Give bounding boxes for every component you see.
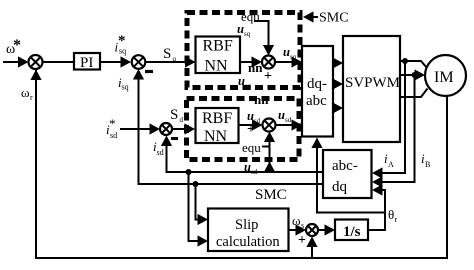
node iA label <box>384 151 394 169</box>
svg-text:r: r <box>395 215 398 224</box>
svg-text:+: + <box>298 233 306 248</box>
wire SVPWM phase A to IM <box>400 61 427 68</box>
wire theta-r net <box>368 184 385 230</box>
svg-text:equ: equ <box>242 140 261 155</box>
block 1/s integrator <box>335 220 368 241</box>
svg-text:IM: IM <box>434 69 454 86</box>
wire IM speed feedback down <box>30 69 447 258</box>
svg-text:+: + <box>264 69 272 84</box>
node SMC arrow top <box>303 11 318 22</box>
node omega-s label <box>292 213 304 230</box>
node usd equ label <box>242 140 261 155</box>
node usq equ label <box>237 9 260 38</box>
svg-text:abc-: abc- <box>332 158 358 174</box>
svg-text:d: d <box>180 116 184 124</box>
svg-text:q: q <box>173 55 177 63</box>
block RBF NN d (U2) <box>196 108 239 145</box>
summing junction J2 <box>132 55 146 69</box>
summing junction J5 <box>263 119 276 132</box>
junction dot phase A <box>402 58 408 64</box>
node isd label <box>153 139 164 157</box>
svg-text:sq: sq <box>244 30 251 38</box>
wire J4 to dq-abc (usq) <box>275 56 302 67</box>
node SMC label bottom <box>255 187 287 203</box>
svg-text:*: * <box>13 37 21 54</box>
block PI <box>74 53 100 71</box>
dashed SMC box A (q-axis) <box>187 13 300 88</box>
node SMC label top <box>319 11 349 26</box>
junction dot line2 <box>193 181 199 187</box>
node i*sq label <box>115 33 127 56</box>
block abc-dq <box>323 150 372 198</box>
svg-text:S: S <box>170 107 178 123</box>
svg-text:nn: nn <box>254 92 269 107</box>
dashed SMC box B (d-axis) <box>187 99 300 160</box>
node Sd label <box>170 107 184 124</box>
wire RBF q to J4 <box>240 56 262 67</box>
svg-text:S: S <box>163 46 171 62</box>
svg-text:SVPWM: SVPWM <box>345 75 400 91</box>
wire iA tap <box>372 61 405 179</box>
wire dq-abc to SVPWM phase 1 <box>333 57 344 68</box>
node omega* label <box>6 37 21 57</box>
block IM motor <box>425 55 466 96</box>
wire omega* input <box>3 56 29 67</box>
svg-text:NN: NN <box>204 128 228 145</box>
node theta-r label <box>388 207 398 224</box>
node usd below-box label <box>244 160 258 176</box>
svg-text:s: s <box>301 221 304 230</box>
svg-text:NN: NN <box>205 58 229 75</box>
node usd nn label <box>247 92 269 125</box>
node minus sign J3 <box>171 137 178 140</box>
summing junction J4 <box>262 56 275 69</box>
wire J6 to 1/s <box>318 224 335 235</box>
node plus sign J5 <box>247 122 255 137</box>
block dq-abc <box>302 46 333 137</box>
wire dq-abc to SVPWM phase 2 <box>333 78 344 89</box>
wire SVPWM phase B to IM <box>400 69 425 80</box>
block RBF NN q (U1) <box>196 37 241 75</box>
junction dot line1 <box>186 169 192 175</box>
wire slip to J6 <box>289 224 307 235</box>
summing junction J6 <box>306 224 318 236</box>
svg-text:A: A <box>388 160 394 169</box>
wire iB tap <box>372 75 415 188</box>
svg-text:sd: sd <box>157 148 164 157</box>
svg-text:sq: sq <box>245 82 252 90</box>
svg-text:u: u <box>237 22 244 36</box>
node Sq label <box>163 46 177 63</box>
node i*sd label <box>106 116 117 140</box>
svg-text:1/s: 1/s <box>343 224 361 240</box>
node plus sign J6 <box>298 233 306 248</box>
svg-text:u: u <box>283 45 290 59</box>
svg-text:SMC: SMC <box>255 187 287 203</box>
svg-text:RBF: RBF <box>203 38 233 55</box>
svg-text:u: u <box>238 74 245 88</box>
wire J2 to RBF NN q (Sq) <box>145 56 195 67</box>
junction dot phase B <box>412 72 418 78</box>
svg-text:sq: sq <box>119 47 126 56</box>
node omega-r label <box>21 85 33 102</box>
wire RBF d to J5 <box>239 119 263 130</box>
svg-text:sq: sq <box>290 53 297 61</box>
block Slip calculation <box>208 209 289 252</box>
wire usq-equ hook into J4 <box>254 20 274 56</box>
wire i*sd input <box>120 123 160 134</box>
node plus sign J4 <box>264 69 272 84</box>
node isq label <box>118 75 129 92</box>
svg-text:SMC: SMC <box>319 11 349 26</box>
svg-text:RBF: RBF <box>202 110 232 127</box>
wire speed feedback to J6 <box>306 237 317 259</box>
svg-text:dq-: dq- <box>307 76 327 92</box>
svg-text:calculation: calculation <box>216 234 280 250</box>
node usq nn label <box>238 60 263 90</box>
svg-text:dq: dq <box>332 179 348 195</box>
wire abc-dq output line 2 (isq) <box>133 69 323 184</box>
svg-text:sd: sd <box>285 116 292 124</box>
svg-text:B: B <box>425 160 430 169</box>
node minus sign J2 <box>145 70 153 73</box>
svg-text:u: u <box>278 108 285 122</box>
wire J1 to PI <box>43 61 75 63</box>
svg-text:sq: sq <box>122 83 129 92</box>
node iB label <box>421 151 430 169</box>
block SVPWM <box>343 36 400 142</box>
wire usd-equ vertical into J5 <box>262 132 275 173</box>
svg-text:abc: abc <box>306 93 327 109</box>
svg-text:r: r <box>30 93 33 102</box>
svg-text:ω: ω <box>292 213 301 228</box>
wire line1 branch to slip calc <box>189 172 209 247</box>
svg-text:Slip: Slip <box>235 217 258 233</box>
wire dq-abc to SVPWM phase 3 <box>333 102 344 113</box>
wire J3 to RBF NN d <box>172 123 195 134</box>
wire theta-r branch to dq-abc <box>311 138 385 213</box>
node usd output label <box>278 108 292 124</box>
svg-text:θ: θ <box>388 207 394 222</box>
svg-text:ω: ω <box>21 85 30 100</box>
wire abc-dq output line 1 (isd) <box>161 136 323 173</box>
svg-text:+: + <box>247 122 255 137</box>
wire PI to J2 <box>100 56 131 67</box>
node usq output label <box>283 45 297 61</box>
summing junction J1 <box>29 55 43 69</box>
svg-text:*: * <box>109 116 116 131</box>
wire line2 branch to slip calc <box>196 184 209 225</box>
svg-text:sd: sd <box>110 131 117 140</box>
wire J5 to dq-abc (usd) <box>276 119 303 130</box>
wire SVPWM phase C to IM <box>400 89 428 98</box>
summing junction J3 <box>160 123 172 135</box>
svg-text:PI: PI <box>80 55 93 71</box>
